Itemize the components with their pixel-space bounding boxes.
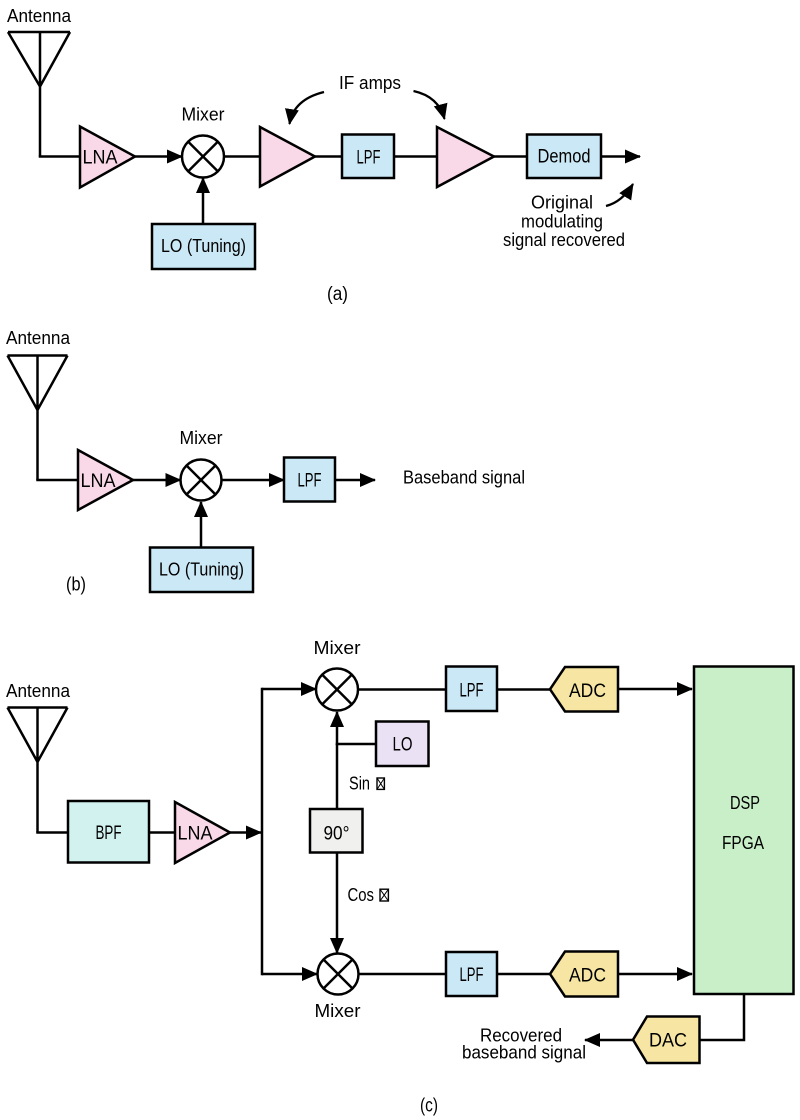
converter DAC (c) (633, 1017, 700, 1064)
svg-text:LPF: LPF (460, 681, 484, 702)
wire ADC top to DSP with arrowhead (618, 688, 692, 691)
wire mixer to IF amp 1 (a) (224, 155, 260, 158)
phase shifter 90 degrees (c) (310, 809, 363, 853)
output arrow Baseband (b) (335, 479, 375, 482)
wire IF amp 1 to LPF (a) (315, 155, 342, 158)
svg-text:LNA: LNA (81, 471, 116, 492)
label Sin theta (missing glyph box) (349, 774, 384, 794)
amplifier LNA (b) (78, 450, 133, 510)
oscillator LO (c) (376, 722, 429, 767)
wire LNA to splitter (c) with arrowhead (230, 831, 261, 834)
label Original modulating signal recovered (503, 193, 625, 251)
converter ADC bottom (c) (550, 952, 618, 997)
wire ADC bottom to DSP with arrowhead (618, 973, 692, 976)
wire splitter to bottom mixer (c) with arrowhead (262, 973, 317, 976)
svg-text:LPF: LPF (357, 148, 381, 169)
wire LO to mixer (a) with arrowhead (202, 178, 205, 224)
svg-text:Antenna: Antenna (6, 328, 71, 348)
wire LO to junction (c) (336, 743, 376, 746)
svg-text:FPGA: FPGA (722, 832, 765, 853)
svg-text:LNA: LNA (83, 148, 118, 169)
curved arrow to IF amp 2 (414, 91, 445, 119)
wire top mixer to LPF (c) (358, 688, 446, 691)
svg-text:Mixer: Mixer (314, 638, 361, 658)
mixer symbol (b) (181, 460, 222, 501)
svg-text:Sin: Sin (349, 774, 370, 794)
mixer symbol top (c) (316, 669, 358, 711)
filter BPF (c) (68, 801, 149, 863)
label Cos theta (missing glyph box) (348, 885, 389, 905)
svg-text:ADC: ADC (569, 681, 606, 702)
svg-text:LO (Tuning): LO (Tuning) (161, 236, 246, 256)
wire antenna to BPF (c) (36, 831, 68, 834)
svg-text:(c): (c) (420, 1096, 438, 1117)
wire LO to mixer (b) with arrowhead (200, 502, 203, 548)
svg-text:Original: Original (531, 193, 593, 213)
block Demod (a) (527, 135, 601, 179)
output arrow DAC to recovered signal (c) (585, 1039, 633, 1042)
svg-text:signal recovered: signal recovered (503, 230, 625, 250)
wire LPF top to ADC (c) (497, 688, 552, 691)
amplifier IF amp 1 (a) (260, 127, 315, 187)
mixer symbol (a) (182, 136, 224, 178)
svg-text:Mixer: Mixer (182, 105, 225, 125)
wire junction to 90 degree box (c) (336, 744, 339, 808)
wire antenna to LNA (b) (36, 479, 78, 482)
wire mixer to LPF (b) with arrowhead (222, 479, 285, 482)
svg-text:LO (Tuning): LO (Tuning) (159, 560, 244, 580)
svg-text:Demod: Demod (538, 147, 591, 168)
wire LPF bottom to ADC (c) (497, 973, 552, 976)
svg-text:Antenna: Antenna (7, 6, 72, 26)
svg-text:Mixer: Mixer (315, 1001, 361, 1021)
svg-text:modulating: modulating (521, 212, 603, 232)
svg-text:LPF: LPF (460, 965, 484, 986)
amplifier LNA (a) (80, 127, 135, 188)
curved arrow to IF amp 1 (290, 92, 325, 124)
svg-text:BPF: BPF (96, 823, 122, 844)
svg-text:LNA: LNA (178, 824, 213, 845)
svg-text:LO: LO (393, 735, 413, 756)
filter LPF (b) (284, 458, 335, 502)
wire DSP to DAC (c) (700, 994, 745, 1040)
svg-text:LPF: LPF (298, 471, 322, 492)
antenna symbol (c) (8, 708, 68, 833)
splitter wire vertical (c) (261, 688, 264, 976)
wire junction to top mixer (c) with arrowhead (336, 712, 339, 745)
svg-text:Antenna: Antenna (6, 681, 71, 701)
antenna symbol (b) (8, 356, 68, 481)
wire BPF to LNA (c) (149, 831, 175, 834)
svg-text:IF amps: IF amps (339, 73, 401, 93)
svg-text:DAC: DAC (649, 1031, 687, 1052)
wire bottom mixer to LPF (c) (359, 973, 447, 976)
svg-text:baseband signal: baseband signal (462, 1043, 586, 1063)
svg-text:Cos: Cos (348, 885, 375, 905)
oscillator LO (Tuning) (b) (150, 548, 253, 593)
filter LPF (a) (342, 135, 394, 179)
wire IF amp 2 to Demod (a) (494, 155, 527, 158)
svg-text:DSP: DSP (730, 792, 760, 813)
wire LPF to IF amp 2 (a) (394, 155, 437, 158)
wire LNA to mixer (b) with arrowhead (133, 479, 181, 482)
wire 90 degree box to bottom mixer (c) with arrowhead (336, 853, 339, 954)
svg-text:(b): (b) (66, 575, 86, 596)
wire splitter to top mixer (c) with arrowhead (262, 688, 316, 691)
output arrow (a) (601, 155, 640, 158)
svg-text:Mixer: Mixer (180, 428, 223, 448)
filter LPF bottom (c) (446, 952, 497, 996)
converter ADC top (c) (550, 667, 618, 712)
antenna symbol (a) (8, 32, 70, 157)
svg-text:ADC: ADC (569, 966, 606, 987)
amplifier IF amp 2 (a) (437, 127, 494, 187)
wire antenna to LNA (a) (39, 155, 80, 158)
block DSP FPGA (694, 667, 794, 995)
svg-text:90°: 90° (324, 824, 350, 845)
wire LNA to mixer (a) with arrowhead (135, 155, 182, 158)
curved arrow output annotation (a) (606, 184, 633, 206)
mixer symbol bottom (c) (318, 954, 359, 995)
amplifier LNA (c) (175, 802, 230, 863)
filter LPF top (c) (446, 667, 497, 712)
svg-text:(a): (a) (327, 284, 348, 305)
svg-text:Baseband signal: Baseband signal (403, 468, 525, 488)
oscillator LO (Tuning) (a) (152, 224, 255, 269)
label Recovered baseband signal (462, 1026, 586, 1063)
